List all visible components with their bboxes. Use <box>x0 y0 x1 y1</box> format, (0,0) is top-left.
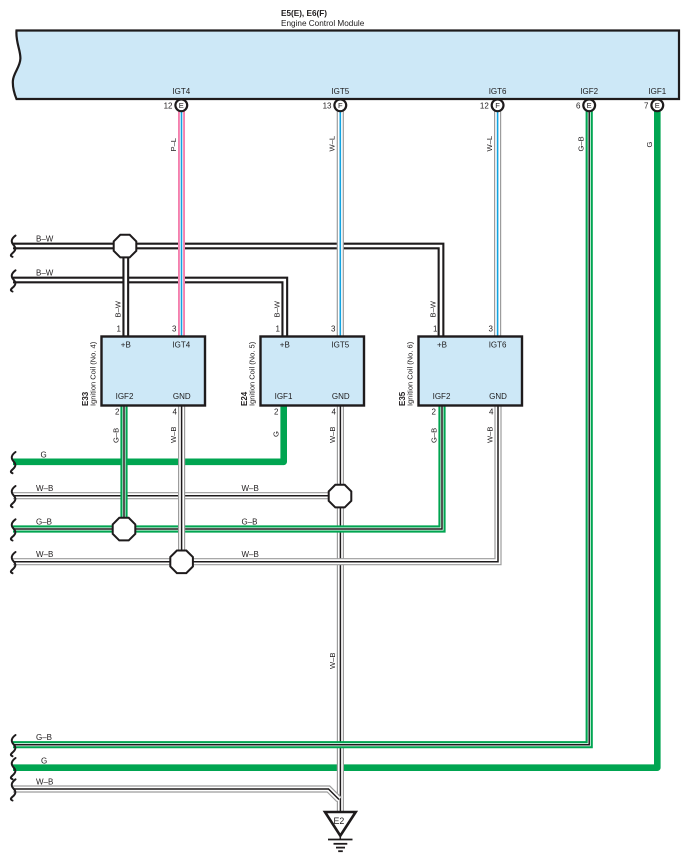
ignition coil E33 (No. 4) <box>81 325 205 417</box>
svg-text:W–B: W–B <box>36 777 53 786</box>
svg-text:G: G <box>645 142 654 148</box>
wire G (IGF1 pin 7 to left edge bottom) <box>13 111 657 768</box>
svg-text:G: G <box>41 756 47 765</box>
ECM module bar E5(E), E6(F) <box>13 9 679 99</box>
svg-text:4: 4 <box>489 408 494 417</box>
svg-text:IGT5: IGT5 <box>331 87 349 96</box>
svg-text:B–W: B–W <box>36 268 54 277</box>
svg-text:W–B: W–B <box>485 427 494 443</box>
wire P-L (IGT4 to E33) <box>178 111 185 337</box>
svg-text:B–W: B–W <box>36 234 54 243</box>
svg-text:IGF2: IGF2 <box>433 392 451 401</box>
wire B-W 2 (left edge to E24 +B) <box>13 280 285 337</box>
svg-text:G–B: G–B <box>242 517 258 526</box>
svg-text:1: 1 <box>117 325 122 334</box>
svg-text:1: 1 <box>276 325 281 334</box>
pin 13 connector F (IGT5) <box>323 99 347 111</box>
wire W-B horizontal 1 (left to junction) <box>13 492 340 499</box>
pin 6 connector E (IGF2) <box>576 99 595 111</box>
pin 7 connector E (IGF1) <box>644 99 663 111</box>
svg-text:W–L: W–L <box>485 136 494 152</box>
wire W-B horizontal 2 (left edge to E35 GND) <box>13 406 498 562</box>
svg-text:+B: +B <box>280 341 290 350</box>
svg-text:2: 2 <box>115 408 120 417</box>
svg-text:F: F <box>338 101 343 110</box>
svg-text:E2: E2 <box>334 816 345 826</box>
svg-text:GND: GND <box>173 392 191 401</box>
svg-text:IGT4: IGT4 <box>172 87 190 96</box>
svg-text:Ignition Coil (No. 6): Ignition Coil (No. 6) <box>406 341 415 406</box>
svg-text:G–B: G–B <box>429 428 438 443</box>
svg-text:3: 3 <box>172 325 177 334</box>
wire W-B horizontal bottom (left edge, merges into ground wire) <box>13 789 339 800</box>
svg-text:W–L: W–L <box>328 136 337 152</box>
svg-text:12: 12 <box>164 102 173 111</box>
svg-text:IGF2: IGF2 <box>116 392 134 401</box>
svg-text:E: E <box>655 101 660 110</box>
wire W-B vertical (E33 GND to junction) <box>178 406 185 562</box>
svg-text:2: 2 <box>432 408 437 417</box>
pin 12 connector F (IGT6) <box>480 99 504 111</box>
svg-text:E: E <box>587 101 592 110</box>
svg-text:W–B: W–B <box>328 653 337 669</box>
svg-text:W–B: W–B <box>242 550 259 559</box>
ignition coil E24 (No. 5) <box>240 325 364 417</box>
node junction octagon B (W-B splice, mid) <box>329 485 352 508</box>
svg-text:W–B: W–B <box>242 484 259 493</box>
svg-text:IGT6: IGT6 <box>489 87 507 96</box>
wire G horizontal (mid, to E24 IGF1) <box>13 406 284 462</box>
svg-text:6: 6 <box>576 102 581 111</box>
svg-text:W–B: W–B <box>36 550 53 559</box>
svg-text:G–B: G–B <box>36 517 52 526</box>
svg-text:E5(E), E6(F): E5(E), E6(F) <box>281 9 327 18</box>
svg-text:B–W: B–W <box>113 300 122 317</box>
svg-text:Ignition Coil (No. 5): Ignition Coil (No. 5) <box>248 341 257 406</box>
svg-text:E: E <box>179 101 184 110</box>
svg-text:+B: +B <box>437 341 447 350</box>
svg-text:B–W: B–W <box>429 300 438 317</box>
wire B-W vertical (junction to E33 +B) <box>122 246 129 337</box>
wire G-B horizontal (left edge to E35 IGF2) <box>13 406 442 530</box>
svg-text:G: G <box>271 431 280 437</box>
node junction octagon A (B-W splice) <box>114 235 137 258</box>
svg-text:G–B: G–B <box>111 428 120 443</box>
svg-text:IGF2: IGF2 <box>580 87 598 96</box>
svg-text:Ignition Coil (No. 4): Ignition Coil (No. 4) <box>89 341 98 406</box>
svg-text:P–L: P–L <box>169 138 178 152</box>
svg-text:13: 13 <box>323 102 332 111</box>
svg-text:W–B: W–B <box>36 484 53 493</box>
svg-text:W–B: W–B <box>328 427 337 443</box>
svg-text:IGT6: IGT6 <box>489 341 507 350</box>
svg-text:IGT5: IGT5 <box>331 341 349 350</box>
svg-text:GND: GND <box>332 392 350 401</box>
svg-text:B–W: B–W <box>272 300 281 317</box>
svg-text:2: 2 <box>274 408 279 417</box>
wire B-W 1 (left edge to E35 +B) <box>13 246 441 337</box>
ground E2 <box>325 812 356 851</box>
wire W-L (IGT6 to E35) <box>494 111 501 337</box>
svg-text:+B: +B <box>121 341 131 350</box>
svg-text:1: 1 <box>433 325 438 334</box>
node junction octagon D (W-B splice, lower) <box>170 551 193 574</box>
wire W-L (IGT5 to E24) <box>337 111 344 337</box>
wire G-B vertical (E33 IGF2 to junction) <box>120 406 127 530</box>
svg-text:7: 7 <box>644 102 649 111</box>
svg-text:F: F <box>495 101 500 110</box>
svg-text:12: 12 <box>480 102 489 111</box>
svg-text:IGT4: IGT4 <box>172 341 190 350</box>
torn-edge mark B-W 1 <box>11 236 16 257</box>
svg-text:Engine Control Module: Engine Control Module <box>281 19 365 28</box>
node junction octagon C (G-B splice) <box>113 518 136 541</box>
svg-text:IGF1: IGF1 <box>648 87 666 96</box>
svg-text:G: G <box>41 450 47 459</box>
svg-text:3: 3 <box>489 325 494 334</box>
svg-text:GND: GND <box>489 392 507 401</box>
labels for horizontal wires <box>36 234 259 786</box>
pin 12 connector E (IGT4) <box>164 99 188 111</box>
svg-text:3: 3 <box>331 325 336 334</box>
wire G-B (IGF2 pin 6 to left edge bottom) <box>13 111 589 745</box>
svg-text:G–B: G–B <box>577 136 586 151</box>
ignition coil E35 (No. 6) <box>398 325 522 417</box>
svg-text:4: 4 <box>332 408 337 417</box>
svg-text:G–B: G–B <box>36 733 52 742</box>
svg-text:4: 4 <box>173 408 178 417</box>
svg-text:W–B: W–B <box>169 427 178 443</box>
wire W-B (E24 GND down to ground E2) <box>337 406 344 813</box>
svg-text:IGF1: IGF1 <box>275 392 293 401</box>
torn-edge marks (left wire ends) <box>11 270 16 800</box>
labels for vertical wires (rotated) <box>111 136 654 669</box>
